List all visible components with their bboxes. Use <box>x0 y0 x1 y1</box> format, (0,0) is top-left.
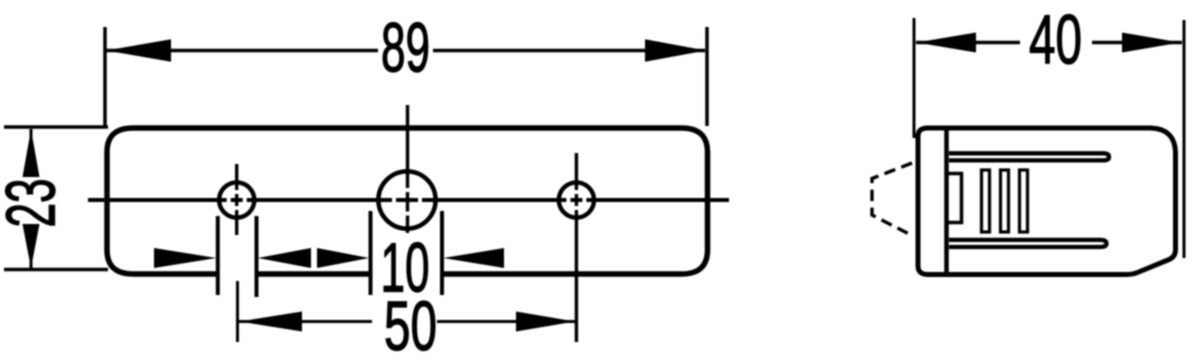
dimension 40 left arrow <box>917 33 977 53</box>
left hole vertical centerline <box>235 164 238 235</box>
dimension 89: right extension line <box>705 27 709 126</box>
dimension 50 left arrow <box>239 312 302 332</box>
left slot edge L1 <box>216 216 220 295</box>
dimension 50 line left segment <box>239 320 372 323</box>
lower horizontal slot <box>949 240 1107 247</box>
small inner rectangle <box>947 174 962 223</box>
horizontal centerline <box>88 198 729 202</box>
dimension 89 left arrow <box>106 39 171 61</box>
center hole vertical centerline <box>406 105 409 233</box>
center hole circle <box>378 171 435 228</box>
dimension 89: left extension line <box>103 27 107 126</box>
left slot edge L2 <box>255 216 259 297</box>
dimension 23 up arrow <box>23 130 40 178</box>
dimension 89 line right segment <box>433 49 705 53</box>
right hole vertical centerline <box>575 153 578 342</box>
dimension 89 line left segment <box>106 49 378 53</box>
dimension 40 right arrow <box>1122 33 1181 53</box>
dimension 23: top extension line <box>4 125 108 128</box>
dimension 50: left extension line <box>236 281 239 342</box>
dimension 40 line left segment <box>916 41 1020 45</box>
svg-text:40: 40 <box>1029 0 1082 78</box>
lamp body outline (front view) <box>107 128 708 274</box>
left mounting hole circle <box>219 182 254 217</box>
svg-text:89: 89 <box>381 9 430 87</box>
upper horizontal slot <box>949 153 1109 160</box>
dimension 50 line right segment <box>437 320 575 323</box>
vent slot 3 <box>1020 170 1028 232</box>
dimension 40: right extension line <box>1183 20 1186 258</box>
arrow left of center slot (pointing right) <box>317 248 369 268</box>
arrow at left slot (outside, pointing right) <box>154 248 217 268</box>
dimension 23 line top segment <box>30 129 33 172</box>
center slot edge L3 <box>369 211 373 295</box>
arrow right of left slot (pointing left) <box>258 248 311 268</box>
dimension 89 right arrow <box>645 39 706 61</box>
svg-text:23: 23 <box>0 178 70 227</box>
vent slot 2 <box>1001 170 1009 232</box>
right mounting hole circle <box>559 182 594 217</box>
side view outline <box>918 128 1176 275</box>
dimension 23 line bottom segment <box>30 232 33 268</box>
dimension 40 line right segment <box>1092 41 1182 45</box>
dimension 23 down arrow <box>23 224 40 268</box>
arrow right of center slot (pointing left) <box>443 248 504 268</box>
vent slot 1 <box>982 170 990 232</box>
svg-text:50: 50 <box>384 287 437 360</box>
center slot edge L4 <box>440 211 444 295</box>
dimension 40: left extension line <box>913 18 916 138</box>
dimension 23: bottom extension line <box>4 268 108 271</box>
hidden bulb outline (dashed) <box>872 163 912 236</box>
side view lens divider <box>944 128 949 274</box>
dimension 50 right arrow <box>516 312 575 332</box>
